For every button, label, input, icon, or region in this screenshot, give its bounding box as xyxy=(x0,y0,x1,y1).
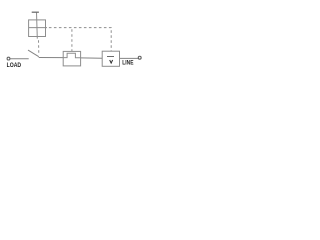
svg-text:LOAD: LOAD xyxy=(7,62,22,69)
svg-text:LINE: LINE xyxy=(122,59,133,66)
